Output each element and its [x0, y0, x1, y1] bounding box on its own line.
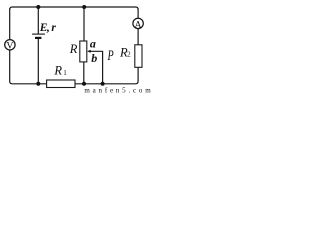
wire battery lower [37, 39, 39, 84]
wire wiper to P branch [90, 51, 102, 84]
wire top side [10, 7, 138, 10]
junction dot bottom R branch [82, 82, 86, 86]
wire left upper [9, 9, 11, 40]
svg-text:E, r: E, r [39, 22, 57, 34]
wire battery upper [37, 7, 39, 34]
junction dot top R branch [82, 5, 86, 9]
resistor R2 box [135, 45, 142, 68]
battery E,r long plate [32, 33, 45, 35]
voltmeter V [5, 40, 15, 50]
svg-text:R: R [69, 42, 78, 56]
wire R branch upper [83, 7, 85, 41]
ammeter A [133, 18, 143, 28]
battery E,r short thick plate [35, 37, 41, 39]
svg-text:V: V [6, 40, 13, 51]
resistor R1 box [47, 80, 75, 88]
wire bottom from R1 to right corner and up to R2 [75, 67, 138, 84]
wiper arrow of rheostat [87, 50, 91, 53]
junction dot bottom wiper branch [101, 82, 105, 86]
svg-text:2: 2 [127, 51, 131, 59]
svg-text:b: b [91, 51, 97, 65]
wire right upper corner to ammeter [137, 9, 139, 19]
rheostat R box [80, 41, 87, 62]
junction dot top battery [36, 5, 40, 9]
svg-text:a: a [90, 37, 96, 51]
junction dot bottom battery [36, 82, 40, 86]
wire R branch lower [83, 62, 85, 84]
svg-text:R: R [53, 64, 62, 78]
svg-text:manfen5.com: manfen5.com [84, 87, 153, 95]
svg-text:1: 1 [63, 69, 67, 77]
wire ammeter to R2 [137, 28, 139, 44]
wire left lower and bottom to R1 [10, 50, 47, 84]
svg-text:P: P [107, 48, 114, 64]
